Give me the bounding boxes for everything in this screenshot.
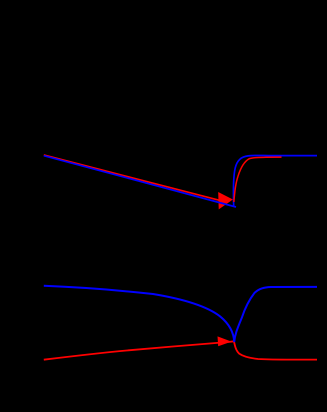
bottom panel: red lower adiabatic curve with arrow shaft [44,341,317,359]
bottom panel: red arrowhead [218,336,232,346]
top panel: red sweep arrow shaft (diabatic ramp) [44,155,220,200]
bottom panel: blue upper adiabatic curve (avoided crossing V) [44,286,317,342]
top panel: red rising saturation curve [234,157,282,202]
top panel: blue rising saturation curve [233,155,317,206]
top panel: red arrowhead [218,192,233,209]
top panel: blue descending line [44,156,236,207]
